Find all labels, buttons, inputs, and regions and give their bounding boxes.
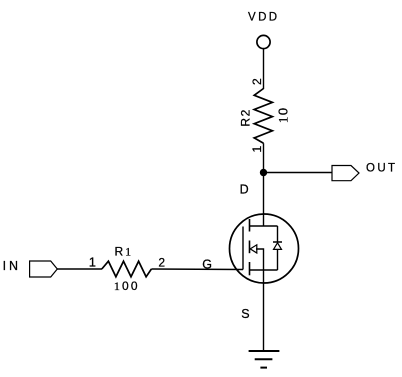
transistor Q1 source connection: [250, 269, 278, 271]
ground symbol bar 1: [249, 350, 280, 352]
wire node D to MOSFET drain: [263, 173, 265, 227]
svg-text:2: 2: [250, 78, 264, 85]
resistor R2 zigzag: [254, 89, 272, 144]
ground symbol bar 2: [255, 358, 273, 360]
wire VDD circle to R2 pin 2: [263, 49, 265, 89]
svg-text:2: 2: [158, 255, 165, 269]
svg-text:G: G: [202, 257, 212, 271]
port flag OUT: [332, 166, 359, 181]
svg-text:R2: R2: [239, 108, 253, 127]
svg-text:1: 1: [89, 254, 96, 269]
svg-text:S: S: [241, 307, 249, 321]
body diode anode lead: [277, 226, 279, 242]
wire R1 pin 2 to gate: [151, 268, 243, 271]
body diode cathode lead: [277, 249, 279, 270]
body diode cathode bar: [273, 241, 282, 243]
ground symbol bar 3: [260, 367, 267, 369]
power terminal VDD circle: [257, 35, 270, 48]
resistor R1 zigzag: [102, 261, 152, 277]
transistor Q1 body circle: [230, 214, 299, 283]
transistor Q1 drain connection: [250, 225, 278, 227]
transistor Q1 gate electrode: [242, 227, 244, 270]
body diode triangle: [274, 243, 282, 250]
wire R2 pin 1 to node D: [263, 143, 265, 172]
svg-text:R1: R1: [114, 244, 133, 258]
transistor Q1 body arrow line: [256, 249, 264, 270]
transistor Q1 channel segment bottom: [249, 262, 251, 275]
wire source to ground: [263, 270, 265, 351]
svg-text:100: 100: [114, 279, 140, 293]
svg-text:IN: IN: [3, 259, 21, 273]
svg-text:1: 1: [250, 146, 264, 153]
svg-text:VDD: VDD: [248, 12, 279, 24]
svg-text:10: 10: [276, 107, 291, 124]
transistor Q1 body arrow head: [250, 245, 257, 253]
wire IN port to R1 pin 1: [57, 268, 102, 270]
junction dot node D: [260, 169, 267, 176]
port flag IN: [30, 261, 58, 277]
transistor Q1 channel segment middle: [249, 241, 251, 254]
svg-text:OUT: OUT: [366, 163, 397, 175]
wire node D to OUT port: [264, 172, 333, 174]
svg-text:D: D: [240, 183, 249, 197]
transistor Q1 channel segment top: [249, 219, 251, 232]
